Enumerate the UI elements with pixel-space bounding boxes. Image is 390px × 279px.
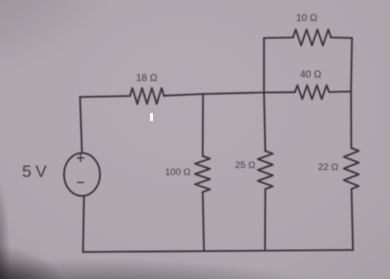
svg-text:40 Ω: 40 Ω	[300, 70, 322, 81]
wire 10-ohm to top-right corner	[331, 37, 352, 40]
resistor R 22 ohm	[344, 148, 359, 189]
wire node C up to top branch	[263, 38, 265, 93]
resistor R 25 ohm	[258, 151, 273, 189]
wire 25-ohm bottom to bottom wire	[264, 189, 266, 250]
resistor R 10 ohm	[293, 30, 331, 46]
voltage source V1 5V	[64, 153, 100, 196]
resistor R 18 ohm	[130, 88, 164, 104]
wire 18-ohm to node B	[164, 94, 203, 96]
wire 22-ohm bottom to bottom-right corner	[352, 189, 354, 250]
wire node B to node C	[203, 93, 264, 95]
svg-text:18 Ω: 18 Ω	[136, 73, 158, 84]
wire top-left of 10-ohm branch	[264, 37, 293, 40]
svg-text:5 V: 5 V	[22, 162, 47, 181]
wire node C to 40-ohm resistor	[264, 91, 295, 93]
wire top-right corner down to node D	[351, 38, 352, 92]
text cursor mark	[150, 113, 153, 121]
node B junction	[202, 93, 204, 95]
wire node B down to 100-ohm resistor	[202, 94, 204, 156]
wire top-left corner to 18-ohm resistor	[80, 96, 130, 97]
wire node C down to 25-ohm resistor	[264, 93, 265, 152]
svg-text:100 Ω: 100 Ω	[165, 167, 191, 178]
svg-text:10 Ω: 10 Ω	[296, 13, 318, 24]
wire node D down to 22-ohm resistor	[350, 92, 352, 149]
bottom wire	[83, 250, 353, 252]
resistor R 40 ohm	[295, 85, 329, 99]
wire 40-ohm to node D	[329, 91, 351, 94]
wire source top to top-left corner	[80, 97, 82, 153]
wire 100-ohm bottom to bottom wire	[203, 192, 204, 251]
wire bottom-left corner up to source bottom	[83, 196, 84, 252]
svg-text:22 Ω: 22 Ω	[318, 162, 338, 173]
svg-text:25 Ω: 25 Ω	[235, 160, 255, 171]
resistor R 100 ohm	[195, 156, 210, 192]
